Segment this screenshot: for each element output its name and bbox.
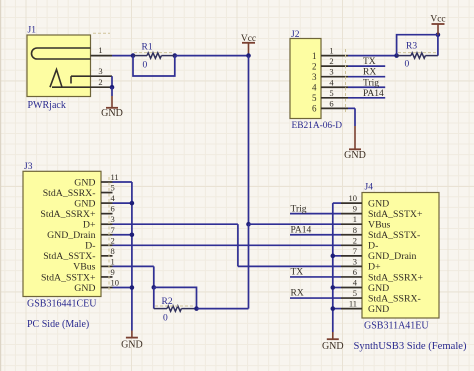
- svg-text:1: 1: [329, 46, 333, 56]
- svg-text:TX: TX: [363, 57, 376, 67]
- svg-text:GND: GND: [344, 150, 366, 161]
- svg-text:3: 3: [312, 72, 317, 82]
- svg-text:D+: D+: [83, 220, 96, 231]
- svg-text:10: 10: [349, 193, 358, 203]
- svg-text:StdA_SSRX+: StdA_SSRX+: [40, 209, 96, 220]
- svg-text:7: 7: [111, 225, 115, 235]
- svg-text:6: 6: [329, 98, 333, 108]
- svg-text:GND: GND: [101, 108, 123, 119]
- svg-text:R3: R3: [406, 42, 417, 52]
- svg-text:PWRjack: PWRjack: [28, 100, 66, 111]
- svg-text:11: 11: [349, 299, 357, 309]
- svg-text:9: 9: [353, 204, 357, 214]
- svg-text:5: 5: [111, 183, 115, 193]
- svg-text:2: 2: [98, 77, 102, 87]
- svg-text:SynthUSB3 Side (Female): SynthUSB3 Side (Female): [354, 341, 467, 352]
- svg-text:GND: GND: [74, 177, 95, 188]
- svg-text:GND_Drain: GND_Drain: [368, 251, 417, 262]
- svg-text:GND: GND: [121, 340, 143, 351]
- svg-text:VBus: VBus: [73, 262, 96, 273]
- svg-text:J4: J4: [365, 183, 374, 193]
- svg-text:1: 1: [312, 51, 317, 61]
- svg-text:StdA_SSTX+: StdA_SSTX+: [368, 209, 423, 220]
- svg-text:PA14: PA14: [363, 89, 384, 99]
- svg-text:6: 6: [312, 104, 317, 114]
- svg-text:2: 2: [111, 235, 115, 245]
- svg-text:1: 1: [98, 45, 102, 55]
- svg-text:RX: RX: [363, 68, 376, 78]
- svg-text:9: 9: [111, 267, 115, 277]
- svg-text:R1: R1: [142, 43, 153, 53]
- svg-text:1: 1: [353, 214, 357, 224]
- svg-text:11: 11: [111, 172, 119, 182]
- svg-text:1: 1: [111, 256, 115, 266]
- svg-text:StdA_SSRX-: StdA_SSRX-: [43, 188, 96, 199]
- svg-text:StdA_SSRX-: StdA_SSRX-: [368, 293, 421, 304]
- svg-text:6: 6: [111, 204, 115, 214]
- svg-text:3: 3: [111, 214, 115, 224]
- svg-text:GND: GND: [368, 283, 389, 294]
- svg-text:3: 3: [98, 66, 102, 76]
- svg-text:3: 3: [329, 67, 333, 77]
- svg-text:D-: D-: [85, 241, 95, 252]
- svg-text:Trig: Trig: [363, 78, 379, 88]
- svg-text:D-: D-: [368, 241, 378, 252]
- svg-text:StdA_SSTX-: StdA_SSTX-: [43, 251, 95, 262]
- svg-text:VBus: VBus: [368, 220, 391, 231]
- svg-text:0: 0: [163, 314, 168, 324]
- svg-text:2: 2: [312, 61, 317, 71]
- svg-text:5: 5: [353, 288, 357, 298]
- svg-text:PA14: PA14: [291, 225, 312, 235]
- svg-text:2: 2: [329, 56, 333, 66]
- svg-text:RX: RX: [291, 289, 304, 299]
- svg-text:GND: GND: [74, 283, 95, 294]
- svg-text:4: 4: [312, 82, 317, 92]
- svg-text:Vcc: Vcc: [430, 14, 445, 24]
- svg-text:10: 10: [111, 278, 120, 288]
- svg-text:Vcc: Vcc: [241, 34, 256, 44]
- svg-text:GSB311A41EU: GSB311A41EU: [364, 321, 429, 332]
- svg-text:8: 8: [111, 246, 115, 256]
- svg-text:GND: GND: [74, 198, 95, 209]
- svg-text:J2: J2: [291, 30, 300, 40]
- svg-text:3: 3: [353, 256, 357, 266]
- svg-text:StdA_SSRX+: StdA_SSRX+: [368, 272, 424, 283]
- svg-text:GND: GND: [368, 198, 389, 209]
- svg-text:PC Side (Male): PC Side (Male): [27, 319, 89, 330]
- svg-text:GND: GND: [322, 341, 344, 352]
- svg-text:5: 5: [329, 88, 333, 98]
- svg-text:Trig: Trig: [291, 204, 307, 214]
- svg-text:EB21A-06-D: EB21A-06-D: [292, 121, 343, 131]
- svg-text:R2: R2: [162, 297, 173, 307]
- svg-text:2: 2: [353, 235, 357, 245]
- svg-text:D+: D+: [368, 262, 381, 273]
- svg-text:GND_Drain: GND_Drain: [47, 230, 96, 241]
- svg-text:6: 6: [353, 267, 357, 277]
- svg-text:StdA_SSTX-: StdA_SSTX-: [368, 230, 420, 241]
- svg-text:7: 7: [353, 246, 357, 256]
- svg-text:GSB316441CEU: GSB316441CEU: [27, 299, 97, 310]
- svg-text:5: 5: [312, 93, 317, 103]
- svg-text:GND: GND: [368, 304, 389, 315]
- svg-text:0: 0: [405, 60, 410, 70]
- svg-text:0: 0: [143, 61, 148, 71]
- svg-text:J3: J3: [24, 162, 33, 172]
- svg-text:J1: J1: [28, 26, 37, 36]
- svg-text:StdA_SSTX+: StdA_SSTX+: [41, 272, 96, 283]
- svg-text:TX: TX: [291, 268, 304, 278]
- svg-text:8: 8: [353, 225, 357, 235]
